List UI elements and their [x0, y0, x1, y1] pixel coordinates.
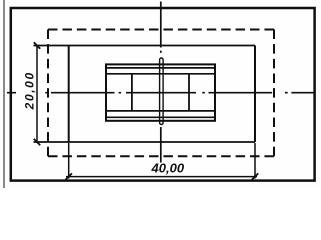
svg-text:40,00: 40,00: [151, 161, 185, 176]
svg-text:20,00: 20,00: [23, 71, 37, 110]
